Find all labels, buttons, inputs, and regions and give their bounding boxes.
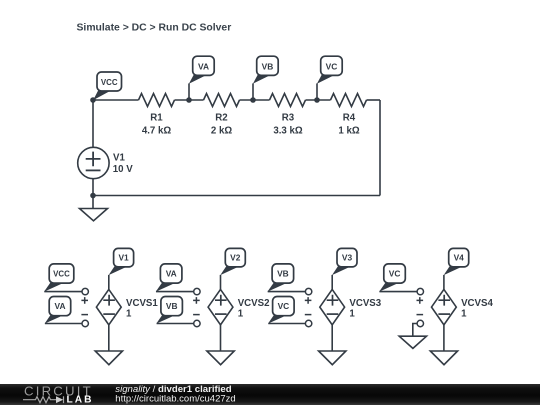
V1 plus mark bbox=[86, 152, 101, 167]
wire VCVS4 to ground bbox=[443, 325, 445, 351]
svg-text:V3: V3 bbox=[342, 253, 353, 263]
wire top left bbox=[93, 99, 139, 101]
wire left top bbox=[92, 100, 94, 147]
terminal + of VCVS4 bbox=[417, 288, 423, 294]
polarity + mark VCVS3 bbox=[305, 297, 312, 304]
flag VCC top bbox=[93, 72, 121, 100]
voltage source V1 bbox=[78, 147, 109, 178]
terminal + of VCVS1 bbox=[82, 288, 88, 294]
polarity - mark VCVS2 bbox=[193, 314, 200, 316]
svg-text:4.7 kΩ: 4.7 kΩ bbox=[142, 125, 172, 136]
svg-text:VC: VC bbox=[389, 269, 401, 279]
svg-text:3.3 kΩ: 3.3 kΩ bbox=[273, 125, 303, 136]
polarity - mark VCVS3 bbox=[305, 314, 312, 316]
ground VCVS2 bbox=[207, 351, 234, 365]
VCVS VCVS3 diamond bbox=[320, 289, 345, 324]
svg-text:R4: R4 bbox=[343, 112, 356, 123]
svg-text:V4: V4 bbox=[454, 253, 465, 263]
terminal - of VCVS1 bbox=[82, 320, 88, 326]
terminal - of VCVS2 bbox=[194, 320, 200, 326]
wire R1-R2 bbox=[175, 99, 204, 101]
svg-text:R3: R3 bbox=[282, 112, 295, 123]
terminal + of VCVS2 bbox=[194, 288, 200, 294]
node VB junction bbox=[250, 97, 256, 103]
svg-text:1: 1 bbox=[461, 309, 467, 320]
node VCC junction bbox=[90, 97, 96, 103]
wire VCVS1 to ground bbox=[108, 325, 110, 351]
polarity + mark VCVS4 bbox=[417, 297, 424, 304]
ground main bbox=[80, 196, 108, 221]
wire control - to ground (VCVS4) bbox=[413, 324, 417, 337]
flag VA (VCVS2 control +) bbox=[156, 264, 194, 292]
ground VCVS4 bbox=[430, 351, 457, 365]
svg-text:VCVS1: VCVS1 bbox=[126, 298, 158, 309]
svg-text:VA: VA bbox=[54, 301, 65, 311]
resistor R2 bbox=[204, 94, 240, 107]
svg-text:1: 1 bbox=[238, 309, 244, 320]
svg-text:VB: VB bbox=[166, 301, 178, 311]
flag V3 (output of VCVS3) bbox=[332, 248, 357, 289]
svg-text:VC: VC bbox=[326, 61, 338, 71]
svg-text:VC: VC bbox=[278, 301, 290, 311]
VCVS VCVS1 diamond bbox=[96, 289, 121, 324]
polarity - mark VCVS1 bbox=[81, 314, 88, 316]
terminal + of VCVS3 bbox=[305, 288, 311, 294]
svg-text:VA: VA bbox=[198, 61, 209, 71]
V1 minus mark bbox=[86, 169, 101, 171]
svg-text:V2: V2 bbox=[230, 253, 241, 263]
ground control - (VCVS4) bbox=[399, 336, 426, 348]
flag VB top bbox=[253, 56, 278, 100]
svg-text:V1: V1 bbox=[118, 253, 129, 263]
svg-text:VCVS4: VCVS4 bbox=[461, 298, 493, 309]
footer bar bbox=[0, 384, 540, 405]
node VA junction bbox=[186, 97, 192, 103]
svg-text:VCC: VCC bbox=[101, 78, 118, 87]
flag VC top bbox=[317, 56, 342, 100]
flag V1 (output of VCVS1) bbox=[109, 248, 134, 289]
wire VCVS3 to ground bbox=[331, 325, 333, 351]
flag VC (VCVS4 control +) bbox=[379, 264, 417, 292]
svg-text:VCVS2: VCVS2 bbox=[238, 298, 270, 309]
VCVS VCVS2 diamond bbox=[208, 289, 233, 324]
wire VCVS2 to ground bbox=[220, 325, 222, 351]
wire left bottom bbox=[92, 179, 94, 196]
ground VCVS3 bbox=[319, 351, 346, 365]
svg-text:VA: VA bbox=[166, 269, 177, 279]
svg-text:VCC: VCC bbox=[53, 270, 70, 279]
svg-text:2 kΩ: 2 kΩ bbox=[211, 125, 232, 136]
flag VC (VCVS3 control -) bbox=[268, 297, 306, 324]
svg-text:http://circuitlab.com/cu427zd: http://circuitlab.com/cu427zd bbox=[115, 393, 235, 404]
svg-text:VCVS3: VCVS3 bbox=[349, 298, 381, 309]
svg-text:R2: R2 bbox=[215, 112, 227, 123]
svg-text:1: 1 bbox=[349, 309, 355, 320]
resistor R3 bbox=[270, 94, 306, 107]
flag VCC (VCVS1 control +) bbox=[44, 264, 82, 292]
polarity - mark VCVS4 bbox=[417, 314, 424, 316]
svg-text:LAB: LAB bbox=[67, 395, 94, 405]
flag V2 (output of VCVS2) bbox=[220, 248, 245, 289]
VCVS VCVS4 diamond bbox=[432, 289, 457, 324]
svg-text:R1: R1 bbox=[150, 112, 163, 123]
wire right side bbox=[379, 100, 381, 196]
polarity + mark VCVS1 bbox=[81, 297, 88, 304]
svg-text:10 V: 10 V bbox=[113, 164, 133, 175]
ground VCVS1 bbox=[95, 351, 122, 365]
svg-text:1: 1 bbox=[126, 309, 132, 320]
flag VB (VCVS2 control -) bbox=[156, 297, 194, 324]
node gnd junction bbox=[90, 193, 96, 199]
svg-text:1 kΩ: 1 kΩ bbox=[338, 125, 359, 136]
wire bottom bbox=[93, 195, 380, 197]
polarity + mark VCVS2 bbox=[193, 297, 200, 304]
flag VA top bbox=[189, 56, 214, 100]
flag VB (VCVS3 control +) bbox=[267, 264, 305, 292]
node bottom junction bbox=[314, 97, 320, 103]
logo resistor-diode line bbox=[23, 396, 64, 403]
svg-text:VB: VB bbox=[262, 61, 274, 71]
svg-text:V1: V1 bbox=[113, 152, 125, 163]
svg-text:VB: VB bbox=[277, 269, 289, 279]
wire R4-corner bbox=[367, 99, 381, 101]
svg-text:Simulate > DC > Run DC Solver: Simulate > DC > Run DC Solver bbox=[77, 23, 232, 34]
wire R3-R4 bbox=[306, 99, 331, 101]
wire R2-R3 bbox=[240, 99, 270, 101]
resistor R4 bbox=[331, 94, 367, 107]
flag VA (VCVS1 control -) bbox=[45, 297, 83, 324]
terminal - of VCVS4 bbox=[417, 320, 423, 326]
terminal - of VCVS3 bbox=[305, 320, 311, 326]
flag V4 (output of VCVS4) bbox=[444, 248, 469, 289]
resistor R1 bbox=[139, 94, 175, 107]
